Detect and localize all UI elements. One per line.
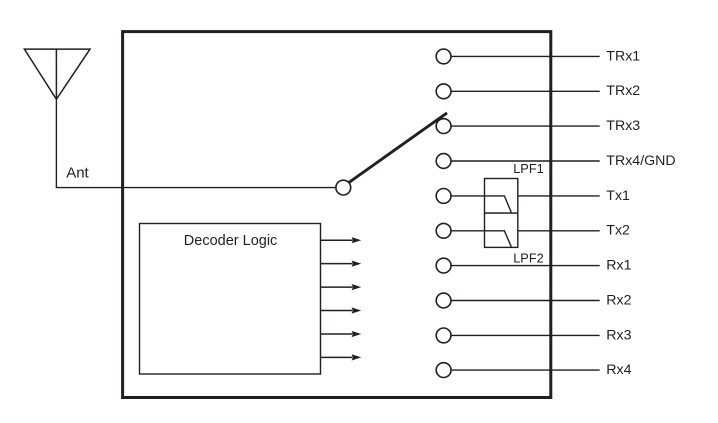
node TRx2 [436, 84, 451, 99]
node Rx4 [436, 363, 451, 378]
wire Rx4 [451, 369, 600, 371]
node Rx1 [436, 258, 451, 273]
svg-text:Rx3: Rx3 [606, 327, 631, 343]
node Tx2 [436, 223, 451, 238]
filter LPF1 block [485, 179, 518, 214]
svg-text:LPF2: LPF2 [513, 251, 544, 266]
control arrow 2 [321, 261, 362, 267]
wire: antenna feed down to Ant node [55, 99, 57, 187]
svg-text:Rx2: Rx2 [606, 292, 631, 308]
wire TRx4/GND [451, 160, 600, 162]
wire Tx2 [451, 230, 600, 232]
decoder logic block [140, 224, 321, 375]
svg-text:TRx4/GND: TRx4/GND [606, 153, 675, 169]
control arrow 1 [321, 237, 362, 243]
switch common pole node [336, 180, 351, 195]
filter LPF2 block [485, 213, 518, 247]
control arrow 4 [321, 307, 362, 313]
svg-text:TRx1: TRx1 [606, 48, 640, 64]
node Rx3 [436, 328, 451, 343]
control arrow 3 [321, 284, 362, 290]
antenna ANT [24, 49, 90, 99]
node Rx2 [436, 293, 451, 308]
node TRx4/GND [436, 154, 451, 169]
node TRx1 [436, 49, 451, 64]
wire TRx3 [451, 125, 600, 127]
switch blade (pole to TRx3) [348, 113, 447, 183]
control arrow 6 [321, 354, 362, 360]
node Tx1 [436, 189, 451, 204]
wire Rx1 [451, 265, 600, 267]
svg-text:TRx3: TRx3 [606, 118, 640, 134]
svg-text:LPF1: LPF1 [513, 161, 544, 176]
node TRx3 [436, 119, 451, 134]
wire TRx1 [451, 55, 600, 57]
svg-text:Rx4: Rx4 [606, 362, 631, 378]
wire TRx2 [451, 90, 600, 92]
svg-text:Tx2: Tx2 [606, 223, 630, 239]
control arrow 5 [321, 331, 362, 337]
outer box: antenna switch IC [123, 32, 551, 398]
svg-text:TRx2: TRx2 [606, 83, 640, 99]
svg-text:Decoder Logic: Decoder Logic [184, 233, 277, 249]
wire Rx3 [451, 334, 600, 336]
wire Rx2 [451, 300, 600, 302]
svg-text:Rx1: Rx1 [606, 258, 631, 274]
wire Tx1 [451, 195, 600, 197]
svg-text:Ant: Ant [66, 164, 89, 181]
wire: Ant node to switch common pole [56, 187, 337, 189]
svg-text:Tx1: Tx1 [606, 188, 630, 204]
